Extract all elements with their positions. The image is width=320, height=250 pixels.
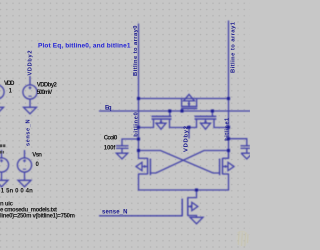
svg-text:bitline1: bitline1 [224,117,230,141]
svg-text:1 5n 0 0 4n: 1 5n 0 0 4n [1,189,33,195]
ground Vsn [18,180,31,187]
ground V2 [24,107,37,114]
ground under source [190,217,203,224]
ground Ccol1 [241,153,252,159]
svg-text:100f: 100f [104,146,117,152]
wire Ccol1 tap [229,139,247,146]
transistor M_tail (sense enable NMOS) [182,190,203,224]
node Eq/gate M_pre0 [168,109,171,112]
node VDDby2 tap [187,126,190,129]
svg-text:Plot Eq, bitline0, and bitline: Plot Eq, bitline0, and bitline1 [38,42,131,49]
node bitline0/row [137,126,140,129]
svg-text:Ccol0: Ccol0 [104,136,118,142]
ground V4 [0,180,8,187]
wire sense_N net [100,215,183,217]
wire VDDby2 row right [214,127,229,129]
node Eq/gate M_pre1 [180,109,183,112]
voltage source V1 VDD (cut at left edge) [0,85,4,114]
capacitor Ccol1 (cut at right edge) [241,146,253,159]
node rail/tail drain [195,188,198,191]
svg-text:Bitline to array0: Bitline to array0 [133,26,139,77]
voltage source Vsn [17,150,31,187]
voltage source V2 VDDby2 [23,76,37,114]
wire top equalization rail [139,98,229,100]
svg-text:sense_N: sense_N [102,210,128,216]
wire bitline0 lower segment [138,174,140,190]
node bitline1/cross [227,149,230,152]
fragment source value cut [0,151,2,154]
node bitline0/Ccol0 [137,137,140,140]
svg-text:line0)=250m v(bitline1)=750m: line0)=250m v(bitline1)=750m [0,213,75,219]
bulk ground flag left [136,162,142,170]
junction dots [137,97,230,192]
text labels [0,81,118,220]
node bitline0/top rail [137,97,140,100]
svg-text:sense_N: sense_N [26,120,32,147]
transistor M_xc0 (left cross-coupled NMOS) [136,158,150,175]
wire VDDby2 row left [139,127,154,129]
transistor M_eq (top, bridges bitlines) [181,94,197,111]
wire bitline0 vertical [138,24,140,158]
transistor M_xc1 (right cross-coupled NMOS) [220,151,234,176]
ground V1 [0,107,4,114]
svg-text:VDDby2: VDDby2 [37,83,58,89]
wire cross-couple B [150,151,228,174]
svg-text:VDDby2: VDDby2 [27,51,33,76]
voltage source V4 (cut at left edge) [0,150,9,187]
svg-text:Eq: Eq [105,106,112,112]
wire cross-couple A [139,151,220,174]
svg-text:VDDby2: VDDby2 [183,126,189,152]
node bitline0/cross [137,149,140,152]
svg-text:VDD: VDD [4,81,15,87]
wire bitline1 lower segment [228,174,230,190]
wire Ccol0 tap [122,139,139,146]
transistor M_pre0 (left precharge/equalize) [152,111,172,129]
svg-text:500mV: 500mV [37,90,53,96]
svg-text:Bitline to array1: Bitline to array1 [230,21,236,73]
watermark [236,231,249,247]
svg-text:bitline0: bitline0 [134,112,140,137]
node bitline1/Ccol1 [227,137,230,140]
ground Ccol0 [116,153,127,159]
node bitline1/row [227,126,230,129]
svg-text:Vsn: Vsn [32,153,42,159]
wire VDDby2 row middle [170,127,197,129]
capacitor Ccol0 [116,146,129,159]
bulk ground flag right [192,202,198,210]
node bitline1/top rail [227,97,230,100]
fragment source name cut [0,144,2,147]
bulk ground flag right [228,162,234,170]
wire bitline1 vertical [228,21,230,158]
wire Eq net [100,110,251,112]
transistor M_pre1 (right precharge/equalize) [195,111,217,129]
wire bottom rail [139,189,229,191]
wire VDDby2 stub [188,128,190,139]
